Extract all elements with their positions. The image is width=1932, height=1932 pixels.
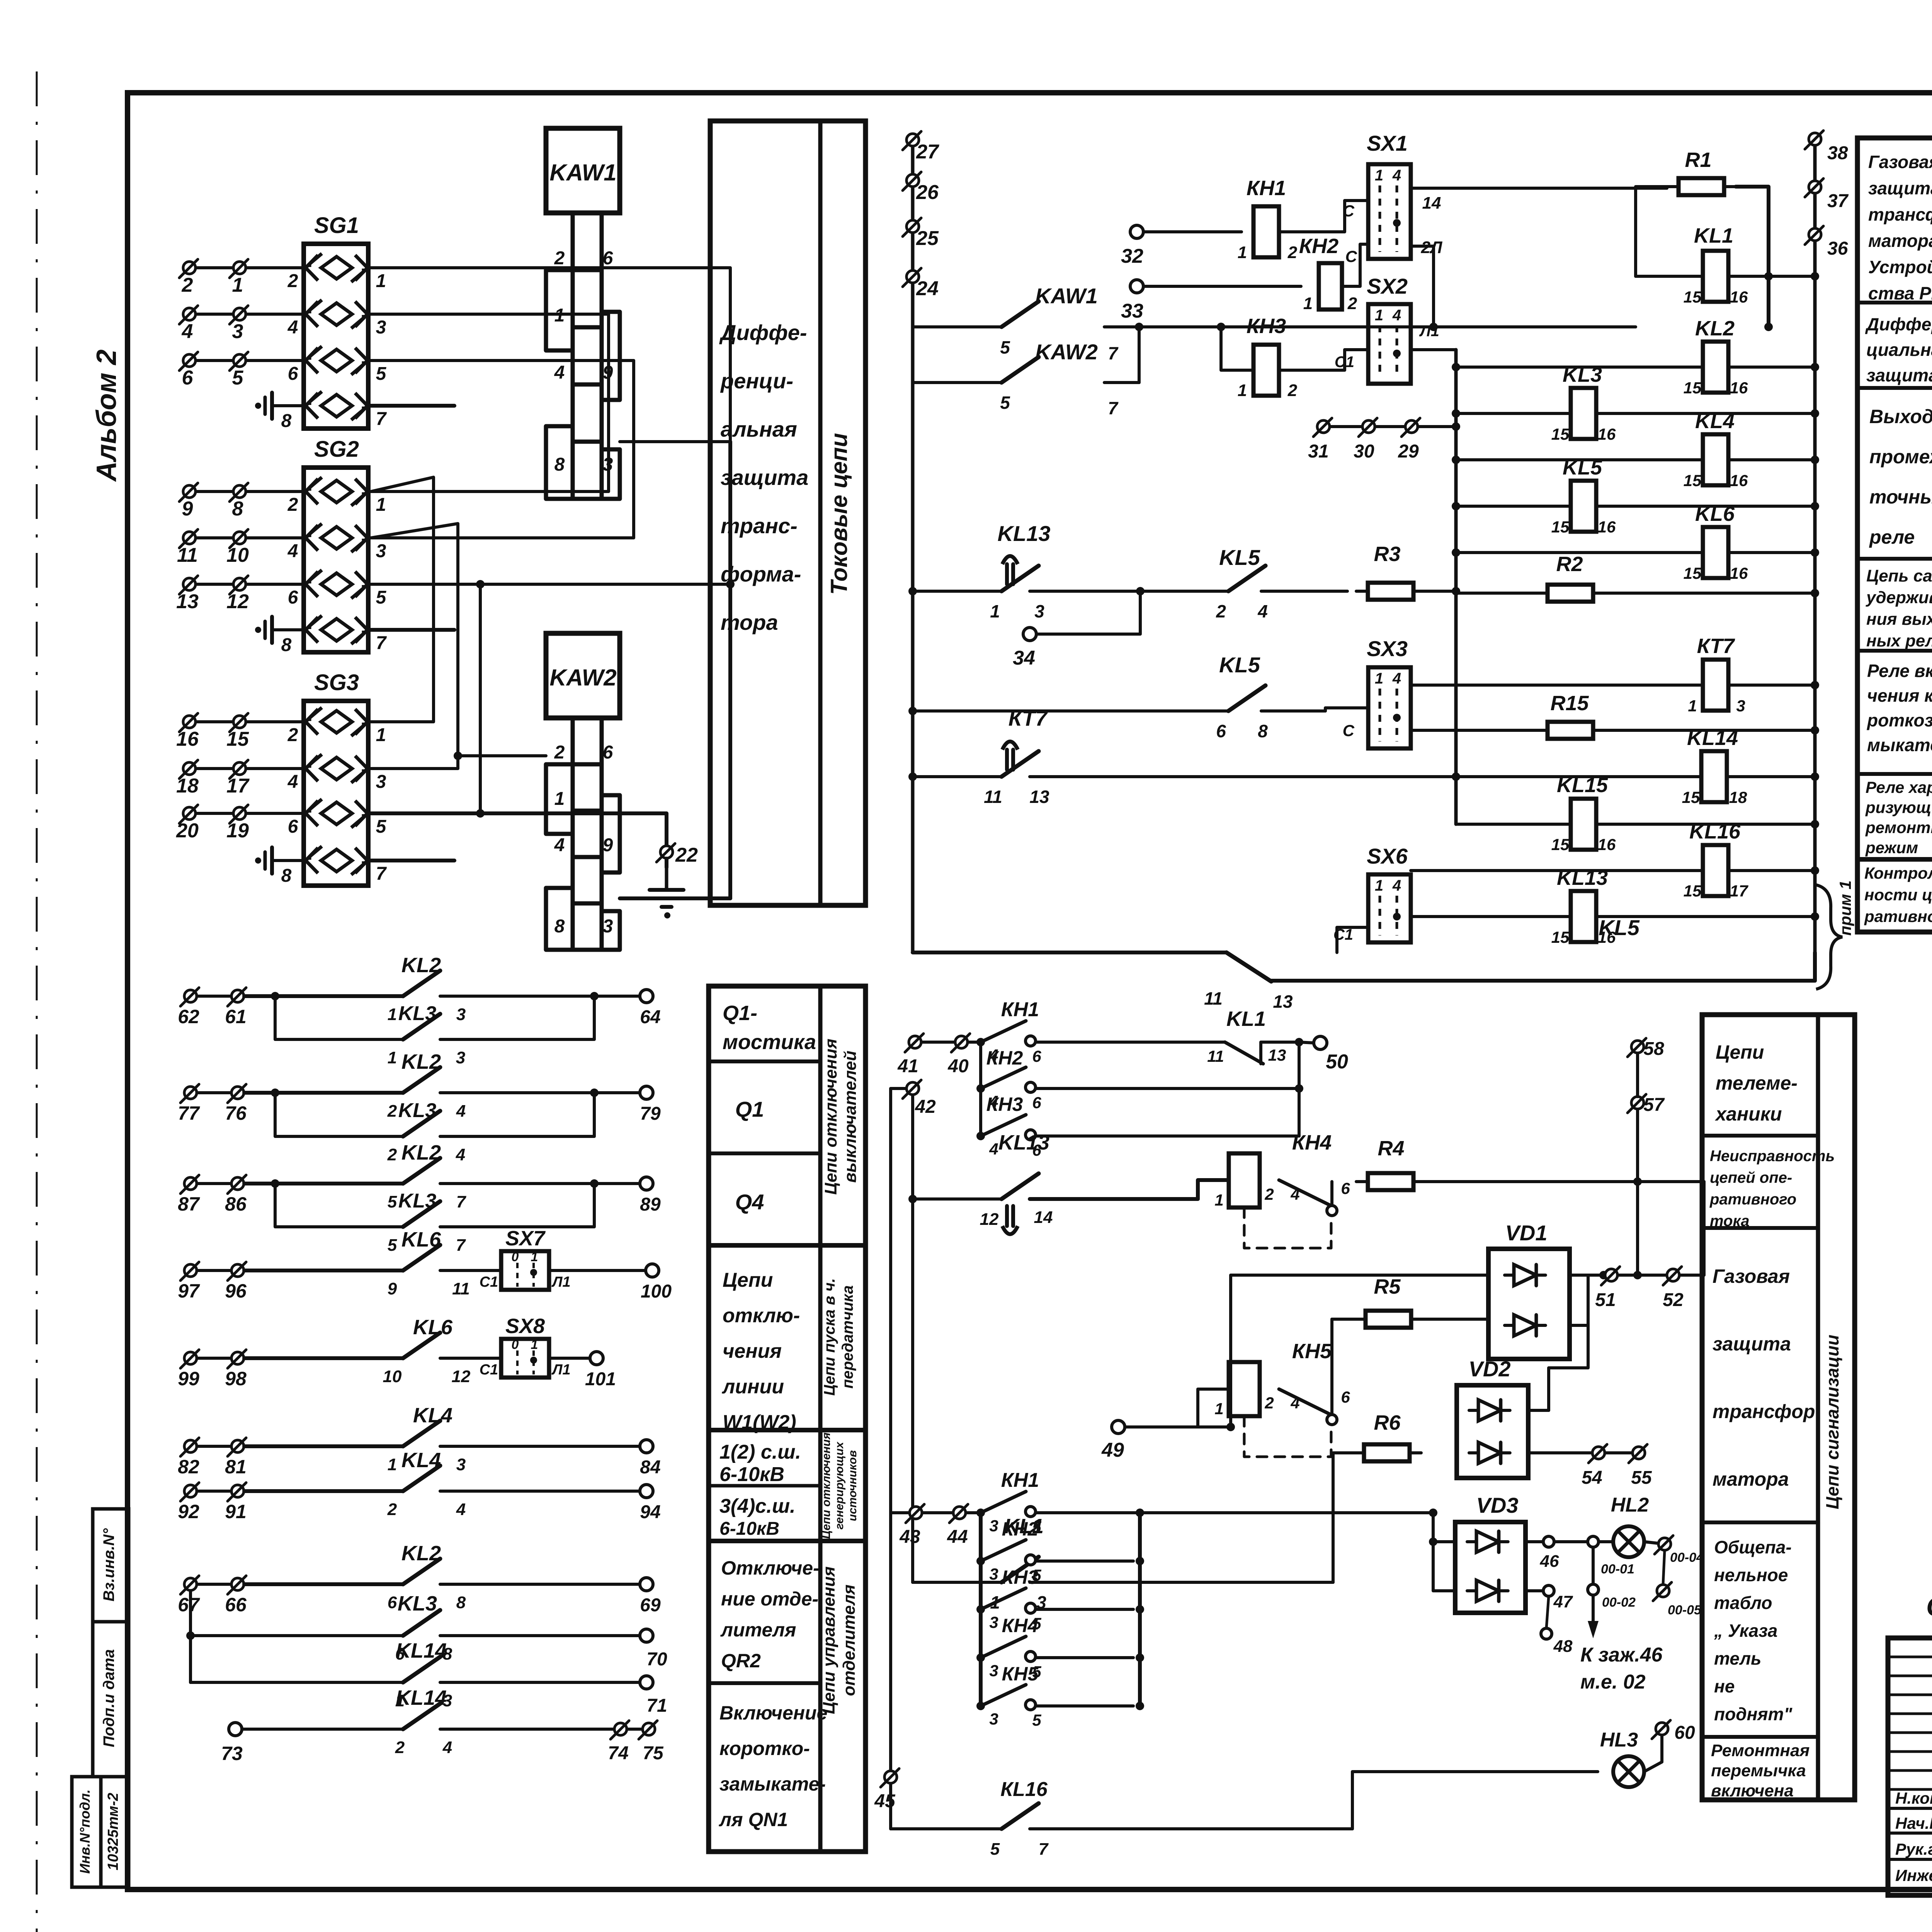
svg-text:12: 12 — [980, 1210, 999, 1229]
svg-text:11: 11 — [452, 1279, 470, 1298]
svg-text:Дифферен-: Дифферен- — [1865, 314, 1932, 334]
vertical 57 58 — [1636, 1053, 1639, 1275]
svg-text:5: 5 — [990, 1840, 1000, 1859]
svg-text:C: C — [1345, 247, 1357, 265]
svg-text:2: 2 — [387, 1145, 397, 1164]
svg-text:ханики: ханики — [1714, 1103, 1782, 1125]
svg-text:КН3: КН3 — [1247, 315, 1286, 338]
wire SG1.1 to KAW1 — [368, 268, 730, 442]
terminal 52 — [1667, 1269, 1679, 1281]
svg-text:18: 18 — [176, 775, 199, 797]
svg-text:82: 82 — [178, 1456, 199, 1478]
svg-text:11: 11 — [1207, 1047, 1224, 1065]
wire 42 west rail — [891, 1088, 906, 1829]
svg-text:передатчика: передатчика — [839, 1285, 856, 1388]
SG2 row 2-1 — [321, 480, 352, 503]
terminal 48 — [1546, 1596, 1549, 1628]
wire 34 link — [1036, 591, 1140, 634]
svg-text:3: 3 — [376, 317, 386, 338]
svg-text:KL14: KL14 — [1687, 726, 1738, 750]
svg-text:8: 8 — [281, 866, 292, 886]
terminal 22 — [665, 813, 668, 845]
svg-text:11: 11 — [1204, 988, 1223, 1009]
svg-text:12: 12 — [226, 590, 249, 613]
svg-text:выключателей: выключателей — [841, 1051, 860, 1183]
svg-text:3: 3 — [989, 1517, 998, 1535]
wire SX2 out to rail — [1411, 348, 1456, 351]
table signal column — [1702, 1015, 1855, 1800]
svg-text:генерирующих: генерирующих — [833, 1441, 846, 1529]
svg-text:16: 16 — [1598, 425, 1616, 443]
relay KAW1 winding — [573, 213, 602, 270]
svg-text:Q1-: Q1- — [723, 1002, 757, 1025]
terminal 70 — [640, 1629, 653, 1642]
svg-text:Цепи отключения: Цепи отключения — [821, 1039, 840, 1195]
terminal 25 — [906, 220, 919, 233]
relay KAW2 label box — [546, 633, 620, 718]
row 73-75 — [229, 1723, 242, 1736]
svg-text:51: 51 — [1595, 1290, 1616, 1310]
wire R3 to rail — [1425, 590, 1456, 593]
svg-text:3: 3 — [376, 772, 386, 792]
svg-text:2: 2 — [287, 271, 298, 291]
svg-text:98: 98 — [225, 1368, 247, 1389]
svg-text:13: 13 — [1273, 992, 1293, 1012]
svg-text:3: 3 — [989, 1662, 998, 1680]
svg-text:75: 75 — [643, 1743, 664, 1764]
wire 32 to KH1 — [1143, 230, 1242, 233]
svg-text:SX2: SX2 — [1367, 274, 1408, 298]
svg-text:15: 15 — [1684, 379, 1702, 397]
svg-text:КН4: КН4 — [1292, 1131, 1332, 1154]
terminal 79 — [440, 1091, 640, 1094]
bus B vertical — [1813, 139, 1817, 952]
loop KL3 — [271, 1179, 279, 1188]
svg-text:6: 6 — [1341, 1388, 1350, 1406]
terminal 40 — [955, 1036, 968, 1048]
svg-text:45: 45 — [874, 1791, 896, 1811]
terminal 36 — [1809, 228, 1821, 241]
svg-text:удержива-: удержива- — [1866, 588, 1932, 607]
test block SX7 — [440, 1269, 501, 1272]
SG2 row 6-5 — [321, 573, 352, 595]
wire KAW2 bottom link — [620, 896, 730, 900]
svg-text:7: 7 — [376, 409, 387, 429]
loop KL3 — [271, 1088, 279, 1097]
svg-text:0: 0 — [512, 1337, 519, 1352]
svg-text:0: 0 — [512, 1250, 519, 1264]
terminal 89 — [440, 1182, 640, 1185]
svg-text:7: 7 — [1108, 398, 1119, 418]
terminal 92 — [184, 1485, 197, 1497]
svg-text:КН5: КН5 — [1002, 1663, 1039, 1685]
contact KH4 aux — [1279, 1180, 1330, 1205]
svg-text:SX8: SX8 — [505, 1315, 545, 1338]
svg-text:3: 3 — [456, 1455, 466, 1474]
svg-text:альная: альная — [721, 417, 797, 441]
terminal 100 — [549, 1269, 646, 1272]
wire R2 to bus — [1605, 592, 1815, 595]
vertical join KL1 — [1298, 1042, 1301, 1136]
svg-text:3: 3 — [232, 320, 243, 343]
svg-text:4: 4 — [1290, 1185, 1299, 1203]
terminal 66 — [231, 1578, 244, 1590]
wire KAW2 tap — [458, 754, 546, 757]
svg-text:54: 54 — [1582, 1468, 1602, 1488]
wire KH1 to KL1 — [1036, 1041, 1225, 1044]
svg-text:Альбом 2: Альбом 2 — [91, 349, 122, 482]
svg-text:КН3: КН3 — [1002, 1566, 1039, 1588]
relay KAW2 bottom bracket — [546, 888, 620, 950]
wire KH3 to SX2 — [1279, 350, 1368, 370]
junction 00-01 — [1592, 1547, 1595, 1584]
svg-text:3: 3 — [456, 1005, 466, 1024]
wire KAW2 join — [1138, 327, 1141, 383]
svg-text:76: 76 — [225, 1102, 247, 1124]
terminal 33 — [1130, 280, 1143, 293]
wire SG2.5 east — [371, 583, 730, 586]
svg-text:00-04: 00-04 — [1670, 1550, 1704, 1565]
VD3 out 46 — [1526, 1540, 1542, 1543]
svg-text:6: 6 — [603, 742, 613, 763]
svg-text:KL5: KL5 — [1219, 653, 1260, 677]
svg-text:QR2: QR2 — [721, 1650, 761, 1672]
svg-text:50: 50 — [1326, 1051, 1348, 1073]
svg-text:телеме-: телеме- — [1716, 1072, 1798, 1094]
svg-text:Общепа-: Общепа- — [1714, 1537, 1792, 1557]
SG2 ground tap — [255, 627, 261, 633]
svg-text:10: 10 — [226, 544, 249, 566]
svg-text:16: 16 — [1730, 471, 1748, 490]
svg-text:C: C — [1343, 202, 1355, 220]
terminal 67 — [184, 1578, 197, 1590]
SG1 row 4-3 — [321, 303, 352, 325]
svg-text:49: 49 — [1101, 1439, 1124, 1461]
svg-text:КН1: КН1 — [1247, 177, 1286, 200]
svg-text:12: 12 — [452, 1367, 471, 1386]
svg-text:ремонтный: ремонтный — [1865, 818, 1932, 837]
svg-text:6: 6 — [288, 364, 298, 384]
svg-text:7: 7 — [456, 1236, 466, 1255]
svg-text:2: 2 — [554, 248, 565, 269]
margin box Inv.N podl — [72, 1777, 101, 1887]
svg-text:96: 96 — [225, 1280, 247, 1302]
svg-text:3: 3 — [1034, 601, 1044, 621]
terminal 50 — [1299, 1042, 1314, 1043]
svg-text:1: 1 — [1214, 1191, 1223, 1209]
svg-text:24: 24 — [916, 277, 939, 300]
wire SG2.1 to SG3.1 — [371, 477, 434, 722]
svg-text:7: 7 — [376, 633, 387, 653]
svg-text:8: 8 — [456, 1593, 466, 1612]
wire SG1.5 down — [368, 361, 634, 538]
bus A vertical — [911, 140, 915, 952]
svg-text:13: 13 — [1029, 787, 1049, 807]
svg-text:трансфор: трансфор — [1713, 1401, 1815, 1422]
svg-text:84: 84 — [640, 1457, 660, 1478]
svg-text:К заж.46: К заж.46 — [1580, 1644, 1663, 1666]
svg-text:2: 2 — [1287, 243, 1298, 262]
corner R4 down — [1702, 1182, 1706, 1275]
svg-text:W1(W2): W1(W2) — [723, 1411, 796, 1434]
svg-text:SG3: SG3 — [314, 670, 359, 695]
svg-text:3: 3 — [989, 1565, 998, 1583]
terminal 00-04 — [1644, 1542, 1658, 1543]
paper edge left — [36, 71, 38, 1932]
riser to KH5 — [1198, 1389, 1229, 1427]
svg-text:SG1: SG1 — [314, 213, 359, 238]
svg-text:C1: C1 — [480, 1274, 498, 1290]
svg-text:1: 1 — [232, 274, 243, 296]
svg-text:защита: защита — [1713, 1333, 1791, 1355]
svg-text:замыкате-: замыкате- — [719, 1773, 826, 1795]
svg-text:29: 29 — [1398, 441, 1419, 462]
title block outline — [1888, 1638, 1932, 1895]
svg-text:мыкателя: мыкателя — [1867, 735, 1932, 755]
wire R4 east — [1425, 1180, 1704, 1183]
svg-text:91: 91 — [225, 1501, 247, 1522]
terminal 42 — [906, 1082, 919, 1095]
svg-text:KL1: KL1 — [1694, 224, 1733, 247]
svg-text:трансфор-: трансфор- — [1868, 204, 1932, 224]
svg-text:КН2: КН2 — [986, 1047, 1023, 1069]
terminal 00-05 — [1663, 1551, 1665, 1584]
SG3 ground row — [321, 849, 352, 872]
svg-text:Цепи пуска в ч.: Цепи пуска в ч. — [821, 1278, 838, 1396]
terminal 87 — [184, 1177, 197, 1190]
svg-text:17: 17 — [1730, 882, 1748, 900]
svg-text:4: 4 — [1392, 307, 1401, 324]
vertical rail KH — [979, 1042, 982, 1136]
svg-text:отделителя: отделителя — [840, 1585, 859, 1696]
wire KH2 to SX1 — [1342, 244, 1368, 286]
svg-text:Реле вклю-: Реле вклю- — [1867, 661, 1932, 681]
svg-text:R15: R15 — [1550, 692, 1589, 715]
svg-text:16: 16 — [176, 728, 199, 750]
svg-text:4: 4 — [456, 1500, 466, 1519]
terminal 81 — [231, 1440, 244, 1452]
wire SX1 to R1 — [1411, 187, 1667, 190]
svg-text:КН1: КН1 — [1001, 998, 1039, 1021]
svg-text:Q1: Q1 — [735, 1097, 764, 1121]
SG2 row 4-3 — [321, 527, 352, 549]
svg-text:6-10кВ: 6-10кВ — [719, 1463, 784, 1486]
wire to VD2 — [1333, 1453, 1364, 1582]
svg-text:1: 1 — [388, 1048, 397, 1067]
svg-text:ризующие: ризующие — [1865, 798, 1932, 816]
svg-text:60: 60 — [1674, 1723, 1695, 1743]
wire SG1.3 down — [368, 314, 609, 492]
terminal 64 — [440, 995, 640, 998]
svg-text:SG2: SG2 — [314, 437, 359, 462]
wire SG3.5 east to ground 22 — [371, 811, 667, 815]
svg-text:25: 25 — [916, 227, 939, 250]
relay KAW1 bottom bracket — [546, 426, 620, 499]
terminal row 31 30 29 — [1317, 420, 1330, 433]
svg-text:КТ7: КТ7 — [1009, 706, 1048, 730]
svg-text:16: 16 — [1730, 564, 1748, 582]
svg-text:2: 2 — [387, 1102, 397, 1121]
svg-text:26: 26 — [916, 181, 939, 204]
terminal 57 — [1631, 1097, 1644, 1109]
svg-text:36: 36 — [1827, 238, 1848, 259]
svg-text:тока: тока — [1710, 1213, 1749, 1230]
R1 left link down — [1636, 187, 1667, 276]
svg-text:43: 43 — [899, 1527, 920, 1547]
svg-text:R5: R5 — [1374, 1275, 1401, 1298]
svg-text:66: 66 — [225, 1594, 247, 1616]
svg-text:42: 42 — [915, 1097, 936, 1117]
terminal 82 — [184, 1440, 197, 1452]
margin box 10325tm-2 — [101, 1777, 129, 1887]
svg-text:Ремонтная: Ремонтная — [1711, 1741, 1810, 1760]
svg-text:69: 69 — [640, 1595, 661, 1616]
terminal 54 — [1592, 1447, 1605, 1459]
svg-text:1: 1 — [554, 789, 565, 809]
terminal 98 — [231, 1352, 244, 1364]
relay KAW2 winding — [573, 718, 602, 764]
table operative current — [1857, 138, 1932, 932]
svg-text:HL3: HL3 — [1600, 1729, 1638, 1751]
svg-text:1: 1 — [1375, 670, 1383, 687]
svg-text:8: 8 — [554, 454, 565, 475]
svg-text:Токовые цепи: Токовые цепи — [826, 433, 852, 595]
svg-text:6: 6 — [288, 587, 298, 608]
svg-text:транс-: транс- — [721, 514, 798, 538]
svg-text:15: 15 — [1551, 835, 1570, 854]
svg-text:матора: матора — [1713, 1468, 1789, 1490]
svg-text:15: 15 — [1551, 425, 1570, 443]
svg-text:1: 1 — [1214, 1400, 1223, 1418]
wire KH5 to R5 — [1330, 1319, 1333, 1414]
svg-text:КН4: КН4 — [1002, 1615, 1039, 1636]
svg-text:KL1: KL1 — [1226, 1007, 1266, 1031]
svg-text:4: 4 — [554, 835, 565, 855]
svg-text:6: 6 — [182, 367, 194, 389]
svg-text:Неисправность: Неисправность — [1710, 1148, 1835, 1165]
svg-text:Устрой-: Устрой- — [1868, 257, 1932, 277]
svg-text:47: 47 — [1553, 1592, 1573, 1611]
svg-text:Вз.инв.N°: Вз.инв.N° — [100, 1528, 117, 1601]
svg-text:5: 5 — [376, 364, 387, 384]
svg-text:19: 19 — [226, 820, 249, 842]
svg-text:3: 3 — [1736, 697, 1745, 715]
wire 42 down bus — [911, 1095, 914, 1582]
svg-text:87: 87 — [178, 1193, 200, 1215]
svg-text:1: 1 — [531, 1337, 538, 1352]
svg-text:Инжен.: Инжен. — [1895, 1866, 1932, 1884]
svg-text:4: 4 — [1392, 167, 1401, 184]
svg-text:ренци-: ренци- — [720, 369, 793, 393]
svg-text:источников: источников — [846, 1450, 859, 1521]
svg-text:тель: тель — [1714, 1648, 1761, 1668]
VD1 outputs — [1570, 1274, 1604, 1277]
svg-text:13: 13 — [176, 590, 199, 613]
svg-text:KL13: KL13 — [998, 1131, 1049, 1154]
wire KH1 to SX1 — [1279, 201, 1368, 232]
svg-text:4: 4 — [989, 1140, 998, 1158]
svg-text:2: 2 — [1216, 601, 1226, 621]
svg-text:Цепи сигнализации: Цепи сигнализации — [1822, 1335, 1842, 1509]
loop KL3 — [271, 992, 279, 1000]
svg-text:70: 70 — [646, 1649, 667, 1670]
svg-text:64: 64 — [640, 1007, 660, 1027]
svg-text:6: 6 — [1032, 1094, 1041, 1112]
rail stub KL15 — [1454, 777, 1458, 824]
svg-text:ративного тока: ративного тока — [1864, 907, 1932, 925]
svg-text:5: 5 — [388, 1192, 397, 1211]
svg-text:14: 14 — [1422, 194, 1441, 213]
svg-text:2: 2 — [287, 725, 298, 745]
svg-text:C1: C1 — [1335, 354, 1354, 371]
svg-text:Газовая: Газовая — [1868, 152, 1932, 172]
svg-text:6: 6 — [388, 1593, 397, 1612]
svg-text:15: 15 — [226, 728, 249, 750]
svg-text:92: 92 — [178, 1501, 199, 1522]
node SG3.5 — [476, 809, 485, 818]
terminal 99 — [184, 1352, 197, 1364]
svg-text:13: 13 — [1268, 1046, 1286, 1064]
svg-text:Цепи управления: Цепи управления — [820, 1566, 838, 1714]
svg-text:6: 6 — [1341, 1179, 1350, 1197]
svg-text:Включение: Включение — [719, 1702, 827, 1724]
svg-text:15: 15 — [1684, 564, 1702, 582]
svg-text:4: 4 — [1392, 877, 1401, 894]
svg-text:4: 4 — [1392, 670, 1401, 687]
terminal 77 — [184, 1087, 197, 1099]
ground at 22 — [665, 859, 668, 867]
R1 right link — [1736, 187, 1769, 327]
svg-text:94: 94 — [640, 1502, 660, 1522]
svg-text:Инв.N°подл.: Инв.N°подл. — [77, 1789, 93, 1874]
svg-text:R1: R1 — [1685, 148, 1711, 172]
svg-text:Отключе-: Отключе- — [721, 1557, 820, 1579]
svg-text:защита: защита — [721, 465, 808, 490]
svg-text:10325тм-2: 10325тм-2 — [105, 1793, 121, 1871]
svg-text:2: 2 — [1287, 381, 1298, 400]
svg-text:„ Указа: „ Указа — [1714, 1621, 1777, 1641]
svg-text:11: 11 — [177, 544, 198, 566]
svg-text:VD3: VD3 — [1476, 1493, 1519, 1517]
svg-text:61: 61 — [225, 1006, 247, 1027]
svg-text:8: 8 — [232, 498, 243, 520]
svg-text:7: 7 — [456, 1192, 467, 1211]
terminal 49 — [1112, 1420, 1125, 1434]
terminal 71 — [640, 1676, 653, 1689]
wire to KH4 — [1198, 1180, 1229, 1199]
svg-text:1: 1 — [990, 601, 1000, 621]
svg-text:20: 20 — [176, 820, 199, 842]
rail KH buttons lower — [979, 1513, 983, 1706]
terminal 32 — [1130, 225, 1143, 238]
svg-text:ства РПН: ства РПН — [1868, 283, 1932, 303]
svg-text:33: 33 — [1121, 300, 1143, 322]
table cell Q1-mostika — [709, 986, 866, 1852]
svg-text:2: 2 — [287, 495, 298, 515]
svg-text:5: 5 — [376, 587, 387, 608]
svg-text:9: 9 — [182, 498, 193, 520]
svg-text:4: 4 — [1290, 1394, 1299, 1412]
svg-text:8: 8 — [554, 916, 565, 937]
table tokovye cepi — [710, 121, 866, 905]
svg-text:6: 6 — [1216, 721, 1226, 741]
terminal 27 — [906, 134, 919, 146]
relay KAW1 right bracket — [602, 312, 620, 400]
svg-text:KL3: KL3 — [1563, 363, 1602, 386]
svg-text:R3: R3 — [1374, 543, 1400, 566]
svg-text:поднят": поднят" — [1714, 1704, 1793, 1724]
svg-text:00-02: 00-02 — [1602, 1595, 1636, 1610]
